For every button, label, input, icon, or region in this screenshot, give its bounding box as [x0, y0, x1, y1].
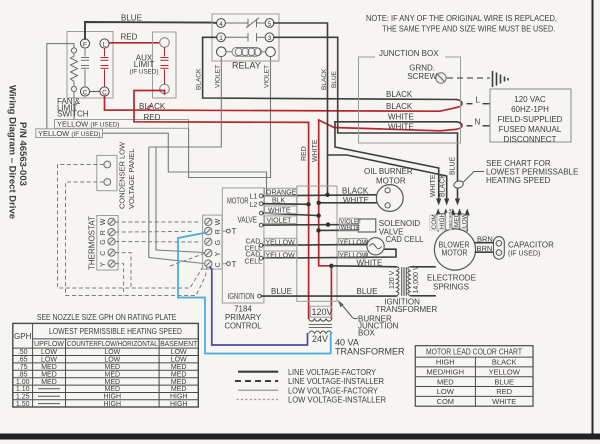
svg-text:R: R: [215, 229, 222, 234]
wire: white solenoid return: [319, 229, 359, 231]
wire: relay3 blue to blower: [274, 37, 458, 180]
svg-text:LINE VOLTAGE-FACTORY: LINE VOLTAGE-FACTORY: [288, 368, 377, 377]
svg-text:W: W: [215, 218, 222, 225]
svg-text:ELECTRODE: ELECTRODE: [427, 274, 476, 283]
fan & limit switch terminal F: [80, 39, 89, 48]
svg-text:T: T: [232, 227, 237, 236]
blower lead arrows up: [438, 213, 467, 232]
svg-text:120 VAC: 120 VAC: [514, 95, 546, 104]
ignition transformer: [397, 267, 436, 296]
aux contact (red): [161, 47, 169, 84]
thermostat strip right (at primary control): [203, 215, 222, 269]
svg-text:LOW: LOW: [104, 357, 120, 364]
dashed wire C row short: [115, 253, 131, 288]
label AUX LIMIT (IF USED): [129, 54, 158, 76]
svg-text:MED: MED: [437, 377, 454, 386]
svg-text:WHITE: WHITE: [268, 207, 291, 214]
svg-text:1.00: 1.00: [16, 379, 30, 386]
svg-text:1: 1: [219, 35, 223, 42]
wire: red neutral from N: corner to white bus and 120V primary right: [319, 120, 332, 318]
wire: resistor top to left bypass (yellow2 feed): [47, 44, 74, 129]
see chart callout: [453, 159, 578, 189]
svg-text:COM: COM: [437, 397, 455, 406]
svg-text:120V: 120V: [312, 307, 333, 317]
dashed wire condenser 1 loop: [58, 165, 205, 289]
relay coil: [226, 47, 266, 56]
svg-text:BLUE: BLUE: [271, 287, 292, 296]
svg-text:COM: COM: [431, 214, 438, 229]
svg-text:THERMOSTAT: THERMOSTAT: [88, 216, 97, 270]
svg-text:RED: RED: [301, 146, 308, 161]
svg-text:1.50: 1.50: [16, 401, 30, 408]
wire label box YELLOW right1: [339, 239, 369, 247]
dashed wire Y row short: [115, 264, 124, 296]
junction dot white solenoid: [316, 228, 320, 232]
wire: relay5 black down to motor node: [274, 23, 328, 195]
svg-text:CAD: CAD: [246, 239, 261, 246]
svg-text:WHITE: WHITE: [388, 123, 414, 132]
label 7184 PRIMARY CONTROL: [225, 305, 263, 331]
relay contact 4-5: [225, 18, 265, 28]
svg-text:CAD: CAD: [246, 252, 261, 259]
dashed diagonal crossing 1: [170, 254, 204, 267]
svg-text:N: N: [475, 118, 481, 127]
fan & limit switch terminal C2: [100, 87, 109, 96]
wire: white valve feed to neutral: [263, 213, 319, 216]
wire BRN 2: [476, 251, 495, 253]
svg-text:C: C: [100, 251, 107, 256]
label ELECTRODE SPRINGS: [427, 274, 476, 292]
svg-text:BLUE: BLUE: [450, 156, 457, 175]
relay coil terminal right: [266, 47, 276, 57]
svg-text:LOW: LOW: [437, 387, 455, 396]
svg-text:TRANSFORMER: TRANSFORMER: [335, 347, 405, 357]
svg-text:COUNTERFLOW/HORIZONTAL: COUNTERFLOW/HORIZONTAL: [67, 339, 158, 348]
svg-text:L1: L1: [250, 194, 258, 201]
svg-text:G: G: [215, 240, 222, 245]
GPH table dash marks: [38, 389, 60, 404]
wire: yellow1 cad cell: [263, 243, 367, 246]
svg-text:WHITE: WHITE: [343, 196, 369, 205]
svg-text:3: 3: [268, 35, 272, 42]
svg-text:LOWEST PERMISSIBLE HEATING SPE: LOWEST PERMISSIBLE HEATING SPEED: [49, 327, 182, 336]
junction dot motor node: [325, 193, 329, 197]
svg-text:LOW: LOW: [461, 212, 468, 228]
svg-text:LOW: LOW: [104, 349, 120, 356]
condenser low voltage panel box: [97, 155, 117, 190]
svg-text:1.10: 1.10: [16, 386, 30, 393]
title: Wiring Diagram - Direct Drive: [7, 85, 29, 219]
svg-text:YELLOW (IF USED): YELLOW (IF USED): [57, 120, 119, 129]
svg-text:CAPACITOR: CAPACITOR: [508, 240, 554, 249]
svg-text:MED: MED: [105, 386, 121, 393]
relay terminal 4: [217, 19, 226, 28]
disconnect text: [498, 95, 563, 144]
connector hook on red1: [148, 106, 152, 110]
limit contact L-C (red): [101, 48, 109, 87]
svg-text:IGNITION: IGNITION: [228, 292, 255, 301]
wire label box VIOLET small: [340, 218, 362, 225]
primary control box: [222, 188, 264, 303]
svg-text:YELLOW: YELLOW: [489, 368, 521, 377]
svg-text:C: C: [215, 262, 222, 267]
svg-text:FIELD-SUPPLIED: FIELD-SUPPLIED: [498, 115, 563, 124]
label CAPACITOR (IF USED): [508, 240, 554, 257]
wire: violet valve to solenoid: [263, 224, 358, 227]
svg-text:BASEMENT: BASEMENT: [160, 339, 197, 348]
wire: white bus to ignition transformer: [331, 266, 396, 267]
svg-text:WHITE: WHITE: [388, 112, 414, 121]
svg-text:BLUE: BLUE: [121, 14, 142, 23]
svg-text:BRN: BRN: [477, 234, 493, 243]
svg-text:BLUE: BLUE: [357, 287, 378, 296]
wire label box WHITE small: [340, 225, 361, 232]
svg-text:LOW: LOW: [171, 357, 187, 364]
wire label box YELLOW left2: [265, 251, 297, 259]
svg-text:GPH: GPH: [14, 332, 32, 341]
N terminal stub: [467, 118, 490, 127]
svg-text:4: 4: [219, 21, 223, 28]
svg-text:F: F: [83, 41, 87, 48]
svg-text:BLACK: BLACK: [321, 68, 328, 90]
svg-text:BLACK: BLACK: [492, 358, 517, 367]
wire: violet relay coil left down: [149, 57, 222, 147]
fan & limit switch terminal L: [100, 39, 109, 48]
svg-text:BLACK: BLACK: [342, 186, 369, 195]
junction box: [359, 57, 461, 143]
cad cell: [367, 238, 384, 255]
svg-text:YELLOW (IF USED): YELLOW (IF USED): [38, 129, 100, 138]
wire: yellow2 from box right to L1 node: [103, 133, 267, 196]
svg-text:BRN: BRN: [477, 244, 493, 253]
svg-text:RED: RED: [496, 387, 512, 396]
label SOLENOID VALVE: [379, 219, 421, 237]
svg-text:HIGH: HIGH: [439, 212, 446, 229]
wire: black bus from relay 1 to junction box: [203, 37, 456, 99]
svg-text:MED: MED: [105, 364, 121, 371]
svg-text:SPRINGS: SPRINGS: [433, 283, 469, 292]
connector hook black bus right end: [456, 100, 462, 104]
svg-text:UPFLOW: UPFLOW: [34, 339, 65, 348]
junction dot violet: [326, 222, 330, 226]
svg-text:WHITE: WHITE: [357, 258, 383, 267]
capacitor: [494, 237, 505, 260]
note text: [366, 14, 557, 34]
svg-text:BOX: BOX: [358, 328, 376, 337]
svg-text:.75: .75: [18, 364, 28, 371]
svg-text:LOW: LOW: [41, 357, 57, 364]
L terminal stub: [467, 96, 490, 105]
svg-text:MOTOR: MOTOR: [227, 197, 249, 206]
svg-text:Y: Y: [215, 251, 222, 256]
ground symbol: [493, 71, 509, 87]
svg-text:60HZ-1PH: 60HZ-1PH: [511, 105, 549, 114]
wire: blue F to relay terminal 4: [85, 22, 217, 39]
fan & limit switch box: [67, 32, 113, 99]
relay contact 1-3: [225, 33, 265, 41]
svg-text:.50: .50: [18, 349, 28, 356]
disconnect box: [490, 89, 571, 142]
svg-text:MED: MED: [171, 371, 187, 378]
burner junction box: [297, 186, 337, 301]
blower lead label backgrounds: [430, 213, 467, 230]
junction dot red neutral to white bus: [329, 264, 333, 268]
svg-text:MED: MED: [41, 364, 57, 371]
wire: blue continues below ellipse to arrow: [457, 189, 459, 201]
svg-text:120 V: 120 V: [389, 270, 396, 289]
aux limit terminal top: [160, 38, 170, 48]
label FAN & LIMIT SWITCH: [57, 97, 89, 119]
wire BRN 1: [476, 242, 495, 244]
blower motor: [434, 229, 475, 270]
svg-text:1.25: 1.25: [16, 394, 30, 401]
GPH table: [13, 323, 199, 407]
junction dot white-neutral: [316, 213, 320, 217]
wire: blk L2 to motor white: [263, 203, 308, 206]
svg-text:SCREW: SCREW: [407, 72, 437, 81]
svg-text:CONTROL: CONTROL: [225, 322, 263, 331]
arrowhead black down: [444, 199, 449, 206]
navy wire C to 24V transformer: [210, 267, 308, 346]
relay box: [212, 14, 279, 61]
dashed wire W row: [115, 221, 201, 223]
svg-text:MED HIGH: MED HIGH: [447, 208, 452, 228]
svg-text:MED/HIGH: MED/HIGH: [427, 368, 465, 377]
label CONDENSER LOW VOLTAGE PANEL: [118, 141, 137, 209]
svg-text:FUSED MANUAL: FUSED MANUAL: [499, 125, 562, 134]
wire: red2 aux bottom to 120V transformer primary left (labeled RED): [134, 91, 309, 319]
svg-text:BLACK: BLACK: [386, 90, 413, 99]
legend low voltage installer: [237, 396, 387, 405]
svg-text:LINE VOLTAGE-INSTALLER: LINE VOLTAGE-INSTALLER: [288, 377, 384, 386]
svg-text:YELLOW: YELLOW: [266, 252, 296, 259]
label OIL BURNER MOTOR: [364, 167, 413, 186]
legend low voltage factory: [238, 386, 379, 395]
wire label box ORANGE: [265, 188, 297, 196]
oil burner motor: [376, 185, 403, 212]
svg-text:WHITE: WHITE: [312, 139, 319, 162]
svg-text:MED: MED: [171, 379, 187, 386]
svg-text:MOTOR: MOTOR: [442, 249, 468, 258]
svg-text:WHITE: WHITE: [430, 174, 437, 197]
svg-text:VIOLET: VIOLET: [264, 65, 271, 88]
svg-text:RED: RED: [121, 33, 138, 42]
svg-text:C: C: [83, 89, 88, 96]
resistor R (fan switch heater): [71, 48, 78, 92]
svg-text:CONDENSER LOW: CONDENSER LOW: [118, 141, 127, 209]
junction dot motor white: [317, 201, 321, 205]
svg-text:.85: .85: [18, 371, 28, 378]
svg-text:MED: MED: [105, 371, 121, 378]
svg-text:LOW VOLTAGE-INSTALLER: LOW VOLTAGE-INSTALLER: [288, 396, 386, 405]
svg-text:HEATING SPEED: HEATING SPEED: [486, 176, 551, 185]
svg-text:OIL BURNER: OIL BURNER: [364, 167, 413, 176]
wire: orange L1 to motor black: [263, 195, 376, 196]
svg-text:(IF USED): (IF USED): [129, 69, 158, 76]
svg-text:5: 5: [268, 21, 272, 28]
svg-text:G: G: [100, 239, 107, 244]
svg-text:P/N 46563-003: P/N 46563-003: [17, 122, 28, 186]
svg-text:R: R: [100, 230, 107, 235]
svg-text:VIOLET: VIOLET: [215, 65, 222, 88]
label 40 VA TRANSFORMER: [335, 338, 405, 357]
wire: yellow2 cad cell: [263, 249, 396, 258]
T terminal lower: [222, 260, 237, 269]
40VA transformer coils: [309, 319, 332, 333]
legend line voltage installer: [235, 377, 384, 386]
aux limit terminal bottom: [160, 84, 170, 94]
dashed wire R row: [115, 230, 193, 233]
border frame right: [592, 0, 594, 437]
svg-text:NOTE: IF ANY OF THE ORIGINAL: NOTE: IF ANY OF THE ORIGINAL WIRE IS REP…: [366, 14, 557, 23]
svg-text:Y: Y: [100, 262, 107, 267]
40VA transformer 120V label box: [310, 306, 332, 317]
relay terminal 3: [265, 33, 274, 42]
ground screw: [407, 64, 446, 84]
wire: white factory from junction to blower diagonal: [335, 121, 456, 123]
svg-text:YELLOW: YELLOW: [339, 240, 369, 247]
svg-text:W: W: [100, 218, 107, 225]
wire: black to blower diagonal: [328, 155, 447, 200]
T terminal upper: [222, 227, 237, 236]
dashed wire condenser 2 loop: [66, 182, 208, 296]
svg-text:MED: MED: [41, 379, 57, 386]
relay terminal 1: [217, 33, 226, 42]
svg-text:SWITCH: SWITCH: [57, 110, 89, 119]
svg-text:RELAY: RELAY: [232, 61, 261, 71]
svg-text:L: L: [476, 96, 481, 105]
svg-text:HIGH: HIGH: [170, 394, 188, 401]
wire label box WHITE: [265, 206, 297, 214]
svg-text:ORANGE: ORANGE: [266, 190, 297, 197]
wire label box YELLOW (IF USED) #2: [36, 129, 103, 138]
solenoid valve box: [358, 219, 376, 232]
wire label box BLK: [265, 196, 297, 204]
svg-text:MED: MED: [171, 364, 187, 371]
wire: gray drop to Y screw: [156, 147, 204, 253]
connector hook red1 right end: [456, 104, 462, 108]
border frame bottom bar: [0, 434, 600, 440]
svg-text:MED: MED: [105, 379, 121, 386]
wire label box YELLOW left1: [265, 238, 297, 246]
relay coil terminal left: [217, 47, 227, 57]
svg-text:BLUE: BLUE: [331, 70, 338, 88]
svg-text:T: T: [232, 260, 237, 269]
svg-text:DISCONNECT: DISCONNECT: [504, 135, 557, 144]
svg-text:BLACK: BLACK: [139, 102, 166, 111]
condenser terminal 1: [104, 161, 111, 168]
svg-text:HIGH: HIGH: [436, 358, 455, 367]
wire: resistor bottom down to yellow1 label: [73, 92, 75, 120]
legend line voltage factory: [238, 368, 377, 377]
primary control labels: [227, 194, 262, 302]
wire: yellow1 from box right down to relay coil right: [189, 57, 271, 178]
svg-text:HIGH: HIGH: [104, 394, 122, 401]
GPH table rows: [16, 349, 188, 408]
fan contact F-C: [81, 48, 89, 87]
svg-text:(IF USED): (IF USED): [508, 250, 540, 257]
burner junction box pointer: [338, 300, 358, 319]
svg-text:BLACK: BLACK: [386, 102, 413, 111]
svg-text:HIGH: HIGH: [104, 401, 122, 408]
label IGNITION TRANSFORMER: [376, 298, 438, 314]
svg-text:LOW VOLTAGE-FACTORY: LOW VOLTAGE-FACTORY: [288, 386, 379, 395]
svg-text:RED: RED: [144, 113, 161, 122]
dashed wire screw to ground: [447, 77, 490, 79]
svg-text:MOTOR: MOTOR: [376, 177, 406, 186]
aux limit box: [153, 32, 177, 98]
svg-text:Wiring Diagram – Direct Drive: Wiring Diagram – Direct Drive: [7, 85, 18, 219]
svg-text:JUNCTION BOX: JUNCTION BOX: [379, 49, 439, 58]
wire label box VIOLET: [265, 216, 297, 224]
svg-text:BLACK: BLACK: [440, 174, 447, 197]
arrowhead white down: [436, 199, 441, 206]
wire: blue ignition: [261, 295, 396, 297]
thermostat box (left strip): [97, 216, 118, 271]
connector hook red neutral right end: [456, 126, 462, 130]
svg-text:L2: L2: [250, 202, 258, 209]
right strip terminals W R G Y C: [205, 218, 222, 267]
svg-text:L: L: [103, 41, 107, 48]
svg-text:WHITE: WHITE: [341, 226, 360, 232]
svg-text:BLUE: BLUE: [494, 377, 514, 386]
primary terminals: [258, 194, 264, 298]
svg-text:BLACK: BLACK: [196, 68, 203, 90]
wire label box YELLOW right2: [339, 251, 369, 259]
wire C1-C2 link: [90, 91, 100, 93]
label BURNER JUNCTION BOX: [358, 314, 399, 337]
cyan wire R to 24V transformer: [178, 233, 331, 354]
svg-text:CAD CELL: CAD CELL: [386, 234, 424, 244]
condenser terminal 2: [104, 179, 111, 186]
svg-text:LOW: LOW: [171, 349, 187, 356]
svg-text:SEE NOZZLE SIZE GPH ON RATING: SEE NOZZLE SIZE GPH ON RATING PLATE: [37, 313, 177, 322]
thermostat terminals W R G C Y: [100, 218, 115, 267]
svg-text:LOW: LOW: [41, 349, 57, 356]
svg-text:TRANSFORMER: TRANSFORMER: [376, 305, 438, 314]
label JUNCTION BOX: [375, 48, 445, 60]
svg-text:THE SAME TYPE AND SIZE WIRE MU: THE SAME TYPE AND SIZE WIRE MUST BE USED…: [382, 25, 555, 34]
wire label box YELLOW (IF USED) #1: [55, 120, 189, 129]
svg-text:.65: .65: [18, 357, 28, 364]
svg-text:MED: MED: [454, 212, 461, 227]
relay terminal 5: [265, 19, 274, 28]
motor lead color chart: [415, 346, 533, 407]
svg-text:VOLTAGE PANEL: VOLTAGE PANEL: [127, 149, 136, 209]
svg-text:MED: MED: [41, 371, 57, 378]
arrowhead blue down: [455, 199, 460, 206]
svg-text:HIGH: HIGH: [170, 401, 188, 408]
svg-text:MOTOR LEAD COLOR CHART: MOTOR LEAD COLOR CHART: [426, 348, 522, 357]
svg-text:MED: MED: [171, 386, 187, 393]
wire: red L to aux limit top: [109, 42, 159, 44]
svg-text:VIOLET: VIOLET: [267, 217, 293, 224]
svg-text:YELLOW: YELLOW: [266, 240, 296, 247]
dashed wire G row: [115, 241, 201, 244]
svg-text:14,000 V: 14,000 V: [413, 265, 420, 293]
svg-text:WHITE: WHITE: [492, 397, 516, 406]
svg-text:VALVE: VALVE: [238, 216, 258, 225]
fan & limit switch terminal C1: [80, 87, 89, 96]
wire: red1 C to junction box (labeled BLACK): [105, 96, 457, 111]
svg-text:24V: 24V: [312, 334, 328, 344]
wire: gray drop to C screw: [149, 147, 204, 264]
